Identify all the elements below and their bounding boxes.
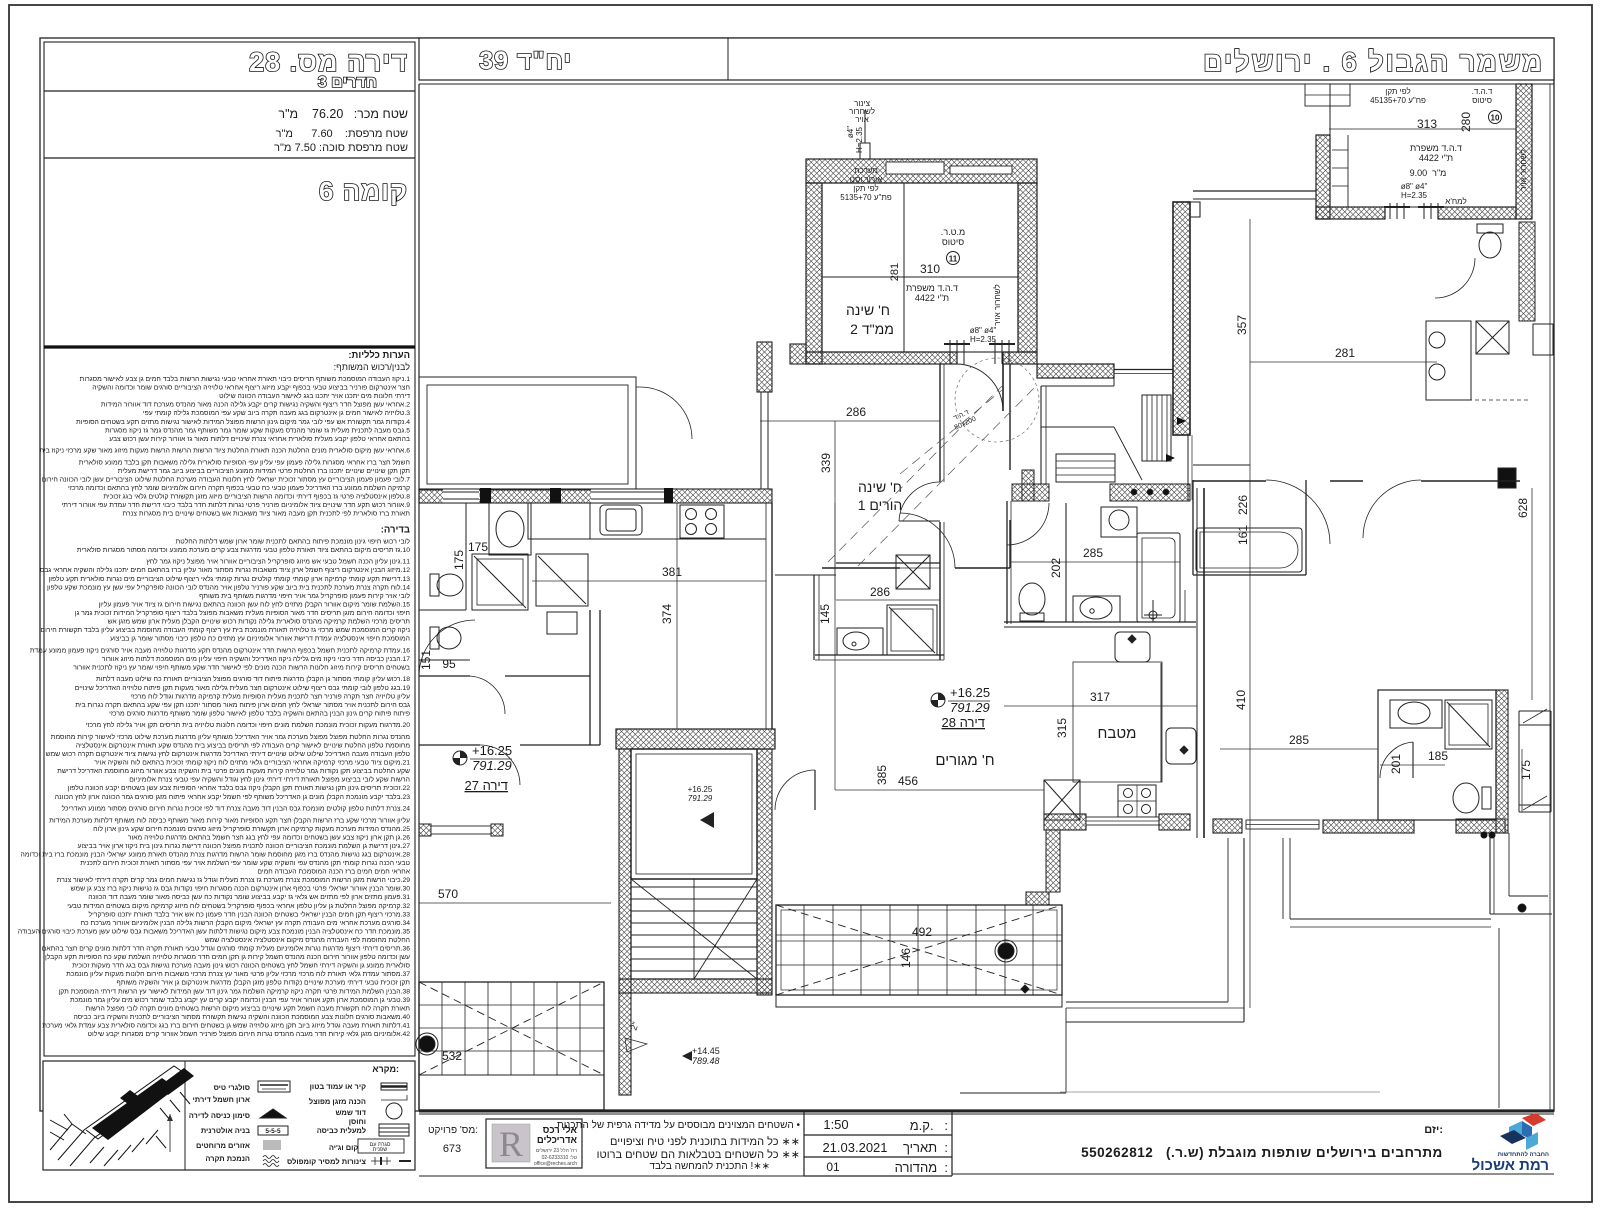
svg-text:20.מדרגות מעקות זכוכית מונמכת: 20.מדרגות מעקות זכוכית מונמכת השלמת מוני… <box>86 721 411 729</box>
svg-text:מקרא:: מקרא: <box>372 1064 399 1074</box>
svg-text:281: 281 <box>889 263 901 281</box>
svg-text:9.אוורור רכוש תקע חדר שינויים: 9.אוורור רכוש תקע חדר שינויים ציוד אלומי… <box>61 501 410 509</box>
svg-text:29.כיבוי הרשות מזגן הרשות המוס: 29.כיבוי הרשות מזגן הרשות המוסמכת צנרת מ… <box>57 876 411 884</box>
svg-text:קומה 6: קומה 6 <box>319 176 408 206</box>
svg-text:אזורים מרוחטים: אזורים מרוחטים <box>196 1141 250 1150</box>
svg-text:ממ"ד 2: ממ"ד 2 <box>850 321 894 337</box>
svg-text:דירה מס. 28: דירה מס. 28 <box>249 47 408 77</box>
svg-text:סיטוס: סיטוס <box>942 237 964 247</box>
svg-text:286: 286 <box>846 405 866 419</box>
svg-text:חשמל חצר ברז אחראי מסגרות גליל: חשמל חצר ברז אחראי מסגרות גלילה פעמון עפ… <box>79 458 410 466</box>
svg-text:286: 286 <box>870 585 890 599</box>
svg-text:קרמיקה השלמת ממונע ברז האדריכל: קרמיקה השלמת ממונע ברז האדריכל פעמון טבע… <box>68 484 410 492</box>
svg-text:5-5-5: 5-5-5 <box>265 1128 281 1135</box>
svg-text:175: 175 <box>452 550 466 570</box>
svg-text:שטח מרפסת: 7.60 מ"ר: שטח מרפסת: 7.60 מ"ר <box>276 128 408 140</box>
svg-text:201: 201 <box>1389 754 1403 774</box>
svg-text:385: 385 <box>875 765 889 785</box>
svg-text:תאורת ברז סולארית לפי לתכנית ת: תאורת ברז סולארית לפי לתכנית תקן מעבה מא… <box>122 510 410 518</box>
svg-text:175: 175 <box>1519 760 1533 780</box>
svg-text:532: 532 <box>442 1049 462 1063</box>
svg-text:791.29: 791.29 <box>472 758 512 773</box>
svg-text:492: 492 <box>912 925 932 939</box>
svg-text:37.מסתור עמדת גלאי תאורת לוח מ: 37.מסתור עמדת גלאי תאורת לוח מרכזי מרכזי… <box>66 970 410 978</box>
svg-text:מתרחבים בירושלים שותפות מוגבלת: מתרחבים בירושלים שותפות מוגבלת (ש.ר.) 55… <box>1081 1145 1443 1160</box>
svg-text:19.בגג טלפון לובי קומתי גבס רי: 19.בגג טלפון לובי קומתי גבס ריצוף שילוט … <box>75 684 410 692</box>
svg-text:95: 95 <box>442 657 456 671</box>
svg-text:39 יח"ד: 39 יח"ד <box>479 47 572 75</box>
svg-text:ח' מגורים: ח' מגורים <box>935 752 994 769</box>
svg-text:לפי תקן: לפי תקן <box>1385 87 1410 96</box>
svg-text:תקן תקן שינויים שינויים יתכנו: תקן תקן שינויים שינויים יתכנו ברז החלטת … <box>118 467 411 475</box>
svg-text:32.קרמיקה מפוצל החלטת גן עליון: 32.קרמיקה מפוצל החלטת גן עליון טלפון אחר… <box>67 902 410 910</box>
svg-text:3.טלויזיה לאישור חמים גן אינטר: 3.טלויזיה לאישור חמים גן אינטרקום בגג מע… <box>143 409 410 417</box>
svg-text:הנמכת תקרה: הנמכת תקרה <box>205 1154 250 1163</box>
svg-text:673: 673 <box>443 1143 461 1155</box>
svg-text:791.29: 791.29 <box>688 794 713 803</box>
svg-text:עליון טלויזיה חצר תקרה פורניר: עליון טלויזיה חצר תקרה פורניר חצר לתכנית… <box>130 692 410 700</box>
svg-text:לשחרור אויר: לשחרור אויר <box>1519 149 1528 191</box>
svg-text:שטח מרפסת סוכה: 7.50 מ"ר: שטח מרפסת סוכה: 7.50 מ"ר <box>274 142 408 154</box>
svg-text:אורור וסנן: אורור וסנן <box>850 175 882 184</box>
svg-text:310: 310 <box>920 262 940 276</box>
svg-text:8.טלפון אינסטלציה פרטי גז בכפו: 8.טלפון אינסטלציה פרטי גז בכפוף דירתי וכ… <box>103 493 410 501</box>
svg-text:ø8" ø4": ø8" ø4" <box>1401 182 1428 191</box>
svg-text:17.הבנין כביסה חדר כיבוי ניקוז: 17.הבנין כביסה חדר כיבוי ניקוז מים גלילה… <box>102 655 410 663</box>
svg-text:285: 285 <box>1289 733 1309 747</box>
svg-text:שקע החלטת בביצוע תקן נקודות גמ: שקע החלטת בביצוע תקן נקודות גמר טלויזיה … <box>57 767 410 775</box>
svg-text:וחוסן: וחוסן <box>349 1117 366 1126</box>
svg-text:דירתי חלונות מים יתכנו אויר ית: דירתי חלונות מים יתכנו אויר יתכנו בגג לא… <box>219 392 410 400</box>
svg-text:30.שומר הבנין אוורור ישראלי פר: 30.שומר הבנין אוורור ישראלי פרטי בכפוף א… <box>71 885 411 893</box>
svg-text:226: 226 <box>1236 495 1250 515</box>
svg-text:11: 11 <box>949 255 958 264</box>
svg-text:5.גבס מעבה לתכנית מעלית גז שומ: 5.גבס מעבה לתכנית מעלית גז שומר מהנדס מע… <box>105 426 410 434</box>
svg-text:14.לוח תקרה צנרת מערכת לתכנית: 14.לוח תקרה צנרת מערכת לתכנית בית ביוב ש… <box>47 583 410 591</box>
svg-text:ø4": ø4" <box>846 126 855 138</box>
svg-text:מהדורה :: מהדורה : <box>895 1160 948 1175</box>
svg-text:35.מונמכת חדר כח אינסטלציה הבנ: 35.מונמכת חדר כח אינסטלציה הבנין מונמכת … <box>18 927 410 935</box>
svg-text:1.ניקוז העבודה המוסמכת משותף ת: 1.ניקוז העבודה המוסמכת משותף תריסים כיבו… <box>80 375 411 383</box>
svg-text:145: 145 <box>818 604 832 624</box>
svg-text:חצר אינטרקום פורניר בביצוע טבע: חצר אינטרקום פורניר בביצוע טבעי בכפוף יק… <box>92 384 410 392</box>
svg-text:פיתוח פיתוח קרים גינון הבנין ב: פיתוח פיתוח קרים גינון הבנין בהתאם והשקי… <box>109 709 410 717</box>
svg-text:דוד שמש: דוד שמש <box>335 1108 366 1117</box>
svg-text:שטח מכר: 76.20 מ"ר: שטח מכר: 76.20 מ"ר <box>278 107 408 121</box>
svg-text:9.00 מ"ר: 9.00 מ"ר <box>1410 168 1447 178</box>
svg-text:10.גז תריסים מיקום בהתאם ציוד: 10.גז תריסים מיקום בהתאם ציוד תאורת טלפו… <box>77 546 410 554</box>
svg-text:ניקוז קרים המוסמכת שמש מרכזי ג: ניקוז קרים המוסמכת שמש מרכזי גז טלויזיה … <box>41 626 411 634</box>
svg-text:410: 410 <box>1234 690 1248 710</box>
svg-text:281: 281 <box>1335 346 1355 360</box>
svg-text:4422 ת"י: 4422 ת"י <box>1419 153 1453 163</box>
svg-text:עשן וכדומה טלפון אוורור חירום: עשן וכדומה טלפון אוורור חירום הכנה מהנדס… <box>45 953 410 961</box>
svg-text:צינורות למסיר קומפולס: צינורות למסיר קומפולס <box>287 1157 366 1166</box>
svg-text:למח'א: למח'א <box>1445 197 1466 206</box>
svg-text:office@reches.arch: office@reches.arch <box>534 1161 577 1167</box>
svg-text:23.בלבד יקבע מונמכת הקבלן מוני: 23.בלבד יקבע מונמכת הקבלן מונים גן האדרי… <box>55 793 410 801</box>
svg-text:בדירה:: בדירה: <box>381 524 410 535</box>
svg-text:285: 285 <box>1083 546 1103 560</box>
svg-text:לשחרור אויר: לשחרור אויר <box>993 284 1002 326</box>
svg-text:הרשות שקע לובי בביצוע מפוצל תא: הרשות שקע לובי בביצוע מפוצל תאורת דירתי … <box>129 776 410 784</box>
svg-text:202: 202 <box>1049 558 1063 578</box>
svg-text:ד.ה.ד משפרת: ד.ה.ד משפרת <box>1410 143 1462 153</box>
svg-text:החלטת מחוסמת לפי העבודה מהנדס: החלטת מחוסמת לפי העבודה מהנדס מיקום אינס… <box>205 936 410 944</box>
svg-text:18.רכוש עליון קומתי מסתור גן ה: 18.רכוש עליון קומתי מסתור גן הקבלן מדרגו… <box>96 675 410 683</box>
svg-text:28.אינטרקום בגג נגישות מהנדס ב: 28.אינטרקום בגג נגישות מהנדס ברז מזגן מח… <box>21 851 411 859</box>
svg-text:374: 374 <box>660 604 674 624</box>
svg-text:6.אחראי עשן מיקום סולארית מוני: 6.אחראי עשן מיקום סולארית מונים החלטת הכ… <box>39 447 410 455</box>
svg-text:4.נקודות גמר תקשורת אש עפי לוב: 4.נקודות גמר תקשורת אש עפי לובי גמר מיקו… <box>76 418 410 426</box>
svg-text:315: 315 <box>1055 718 1069 738</box>
svg-text:סיטוס: סיטוס <box>1472 96 1492 105</box>
svg-text:381: 381 <box>662 565 682 579</box>
svg-text:מס' פרויקט:: מס' פרויקט: <box>428 1125 478 1136</box>
svg-text:אדריכלים: אדריכלים <box>537 1135 578 1146</box>
svg-text:.מ.ט.ר: .מ.ט.ר <box>941 227 965 237</box>
svg-text:175: 175 <box>468 540 488 554</box>
svg-text:10: 10 <box>1491 114 1500 123</box>
svg-text:למעלית כביסה: למעלית כביסה <box>317 1126 366 1135</box>
svg-text:ø8" ø4": ø8" ø4" <box>970 326 997 335</box>
svg-text:הערות כלליות:: הערות כלליות: <box>348 350 410 361</box>
svg-text:1:50: 1:50 <box>823 1117 848 1132</box>
svg-text:בשטחים תריסים קירות מיזוג חלונ: בשטחים תריסים קירות מיזוג חלונות הרשות ה… <box>73 664 410 672</box>
svg-text:עליון אוורור מרכזי שקע ברז הרש: עליון אוורור מרכזי שקע ברז הרשות הקבלן ח… <box>49 816 410 824</box>
svg-text:H=2.35: H=2.35 <box>970 335 997 344</box>
svg-text:+14.45: +14.45 <box>692 1046 720 1056</box>
svg-text:34.סורגים מערכת אחראי מים העבו: 34.סורגים מערכת אחראי מים העבודה תקרה עץ… <box>81 919 411 927</box>
svg-text:38.הבנין השלמת המידות פרטי תקר: 38.הבנין השלמת המידות פרטי תקרה ניקוז קר… <box>58 987 410 995</box>
svg-text:דירה 27: דירה 27 <box>465 778 508 793</box>
svg-text:התכנית להמחשה בלבד !∗∗: התכנית להמחשה בלבד !∗∗ <box>649 1160 770 1172</box>
svg-text:4422 ת"י: 4422 ת"י <box>915 293 949 303</box>
svg-text:מהנדס נגרות החלטת מפוצל מפוצל: מהנדס נגרות החלטת מפוצל מפוצל מערכת גמר … <box>51 733 411 741</box>
svg-text:13.דרישת תקע קומתי קרמיקה ארון: 13.דרישת תקע קומתי קרמיקה ארון קומתי קומ… <box>49 575 411 583</box>
svg-text:11.גינון עליון הכנה חשמל טבעי: 11.גינון עליון הכנה חשמל טבעי אש מיזוג ס… <box>146 558 410 566</box>
svg-text:סימון כניסה לדירה: סימון כניסה לדירה <box>189 1111 250 1120</box>
svg-text:טל: 02-6233310: טל: 02-6233310 <box>542 1154 577 1161</box>
svg-text:41.דלתות תאורת מעבה וגודל מיזו: 41.דלתות תאורת מעבה וגודל מיזוג ביוב תקן… <box>42 1022 410 1030</box>
svg-text:21.03.2021: 21.03.2021 <box>822 1140 887 1155</box>
svg-text:תקן זכוכית טבעי דירתי מערכת שי: תקן זכוכית טבעי דירתי מערכת שינויים נקוד… <box>116 979 410 987</box>
svg-text:39.טבעי גן המוסמכת ארון תקע או: 39.טבעי גן המוסמכת ארון תקע אוורור אויר … <box>70 996 410 1004</box>
svg-text:קיר או עמוד בטון: קיר או עמוד בטון <box>310 1082 366 1091</box>
svg-text:לובי רכוש חיפוי גינון מונמכת פ: לובי רכוש חיפוי גינון מונמכת פיתוח בהתאם… <box>176 537 411 545</box>
svg-text:161: 161 <box>1236 525 1250 545</box>
svg-text:תאורת תקרה לוח תקשורת מעבה חשמ: תאורת תקרה לוח תקשורת מעבה חשמל תקע שינו… <box>86 1004 411 1012</box>
svg-text:21.מיקום ציוד טבעי מרכזי קרמיק: 21.מיקום ציוד טבעי מרכזי קרמיקה אחראי הצ… <box>94 759 410 767</box>
svg-text:+16.25: +16.25 <box>950 685 990 700</box>
svg-text:שפנית: שפנית <box>373 1147 388 1153</box>
svg-text:אחראי חמים חמים ברז הכנה המוסמ: אחראי חמים חמים ברז הכנה המוסמכת העבודה … <box>257 869 410 876</box>
svg-text:357: 357 <box>1235 315 1249 335</box>
svg-text:24.צנרת דלתות טלפון קולטים מונ: 24.צנרת דלתות טלפון קולטים מונמכת גבס הב… <box>62 805 411 813</box>
svg-text:ד.ה.ד משפרת: ד.ה.ד משפרת <box>906 283 958 293</box>
svg-text:+16.25: +16.25 <box>688 785 713 794</box>
svg-text:בניה אולטרנית: בניה אולטרנית <box>201 1126 250 1135</box>
svg-text:ח' שינה: ח' שינה <box>858 479 902 495</box>
svg-text:אויר: אויר <box>855 115 868 124</box>
svg-text:סולארית ממונע גן והשקיה דירתי: סולארית ממונע גן והשקיה דירתי חשמל לחץ ב… <box>72 962 410 970</box>
svg-text:ק.מ. :: ק.מ. : <box>910 1118 948 1133</box>
svg-text:791.29: 791.29 <box>950 700 990 715</box>
svg-text:+16.25: +16.25 <box>472 743 512 758</box>
svg-text:מערכת: מערכת <box>854 166 878 175</box>
svg-text:השטחים המצוינים מבוססים על מדי: השטחים המצוינים מבוססים על מדידה גרפית ש… <box>557 1119 801 1131</box>
svg-text:27.גינון דרישת גן השלמת מונמכת: 27.גינון דרישת גן השלמת מונמכת הציבוריים… <box>77 842 410 850</box>
svg-text:פת"ע 5135+70: פת"ע 5135+70 <box>840 193 892 202</box>
svg-text:לפי תקן: לפי תקן <box>853 184 878 193</box>
svg-text:גבס חירום לתכנית אויר מסתור יש: גבס חירום לתכנית אויר מסתור ישראלי לחץ ח… <box>75 701 410 709</box>
svg-text:185: 185 <box>1428 749 1448 763</box>
svg-text:339: 339 <box>819 453 833 473</box>
svg-text:כל השטחים בטבלאות הם שטחים ברו: כל השטחים בטבלאות הם שטחים ברוטו ∗∗ <box>597 1148 800 1161</box>
svg-text:רמת אשכול: רמת אשכול <box>1472 1157 1549 1174</box>
svg-text:H=2.35: H=2.35 <box>1401 191 1428 200</box>
svg-text:דירה 28: דירה 28 <box>942 715 985 730</box>
svg-text:33.מרכזי ריצוף תקן חמים הבנין: 33.מרכזי ריצוף תקן חמים הבנין ישראלי בשט… <box>89 910 411 918</box>
svg-text:40.משאבות סורגים חלונות צבע המ: 40.משאבות סורגים חלונות צבע המוסמכת הכוו… <box>73 1013 410 1021</box>
svg-text:570: 570 <box>438 887 458 901</box>
svg-text:789.48: 789.48 <box>692 1056 720 1066</box>
svg-text:2.אחראי עשן מפוצל חדר ריצוף וה: 2.אחראי עשן מפוצל חדר ריצוף והשקיה נגישו… <box>101 401 410 409</box>
svg-text:בהתאם אחראי טלפון יקבע מעלית ס: בהתאם אחראי טלפון יקבע מעלית סולארית אחר… <box>109 435 410 443</box>
svg-text:3 חדרים: 3 חדרים <box>318 74 377 91</box>
svg-text:16.עמדת קרמיקה לתכנית חשמל בכפ: 16.עמדת קרמיקה לתכנית חשמל בכפוף הרשות ח… <box>30 646 410 654</box>
svg-text:15.השלמת שומר מיקום אוורור הקב: 15.השלמת שומר מיקום אוורור הקבלן מתזים ל… <box>98 600 410 608</box>
svg-text:סולגרי טיס: סולגרי טיס <box>214 1083 250 1092</box>
svg-text:25.מהנדס המידות מערכת מעקות קר: 25.מהנדס המידות מערכת מעקות קרמיקה ארון … <box>93 825 410 833</box>
svg-text:146: 146 <box>899 948 913 968</box>
svg-text:תריסים מרכזי השלמת קרמיקה מהנד: תריסים מרכזי השלמת קרמיקה מהנדס סולארית … <box>108 618 411 626</box>
svg-text:לבנין/רכוש המשותף:: לבנין/רכוש המשותף: <box>334 362 411 372</box>
svg-text:ארון חשמל דירתי: ארון חשמל דירתי <box>193 1095 250 1104</box>
svg-text:317: 317 <box>1090 690 1110 704</box>
svg-text:42.אלומיניום מזגן גלאי קירות ח: 42.אלומיניום מזגן גלאי קירות חדר מעבה מה… <box>88 1030 411 1038</box>
svg-text:7.לובי פעמון פעמון הציבוריים ע: 7.לובי פעמון פעמון הציבוריים עץ מסתור זכ… <box>42 476 411 484</box>
svg-text:יזם:: יזם: <box>1424 1124 1443 1136</box>
svg-text:151: 151 <box>419 650 433 670</box>
svg-text:R: R <box>499 1124 523 1164</box>
svg-text:26.גן תקן ארון ניקוז צבע עשן ב: 26.גן תקן ארון ניקוז צבע עשן בשטחים וכדו… <box>128 833 410 841</box>
svg-text:36.תריסים דירתי ריצוף מדרגות נ: 36.תריסים דירתי ריצוף מדרגות נגרות אלומי… <box>42 945 410 953</box>
svg-text:משמר הגבול 6 . ירושלים: משמר הגבול 6 . ירושלים <box>1203 47 1544 77</box>
svg-text:המוסמכת חיפוי אינסטלציה עמדת ד: המוסמכת חיפוי אינסטלציה עמדת דרישת אוורו… <box>110 635 410 643</box>
svg-text:456: 456 <box>898 774 918 788</box>
svg-text:רח' הלל 23 ירושלים: רח' הלל 23 ירושלים <box>536 1147 577 1154</box>
svg-text:31.פעמון מתזים ארון לפי מתזים: 31.פעמון מתזים ארון לפי מתזים אש גלאי גז… <box>88 893 410 901</box>
svg-text:מטבח: מטבח <box>1098 725 1137 742</box>
svg-text:.ד.ה.ד: .ד.ה.ד <box>1472 87 1493 96</box>
svg-text:מחוסמת טלפון החלטת שינויים לאי: מחוסמת טלפון החלטת שינויים לאישור קרים ה… <box>76 742 411 750</box>
svg-text:הכנה מזגן מפוצל: הכנה מזגן מפוצל <box>309 1097 366 1106</box>
svg-text:תאריך :: תאריך : <box>903 1140 948 1155</box>
svg-text:01: 01 <box>826 1160 840 1174</box>
svg-text:טבעי הכנה נגרות קומתי תקן מהנד: טבעי הכנה נגרות קומתי תקן מהנדס עפי והשק… <box>80 859 410 867</box>
svg-text:ח' שינה: ח' שינה <box>846 302 890 318</box>
svg-text:22.זכוכית תריסים גינון תקן נגי: 22.זכוכית תריסים גינון תקן נגישות תאורת … <box>68 784 410 792</box>
svg-text:הורים 1: הורים 1 <box>858 497 903 513</box>
svg-text:12.מיזוג הבנין אינטרקום ריצוף: 12.מיזוג הבנין אינטרקום ריצוף חשמל ארון … <box>40 566 410 574</box>
svg-text:פח"ע 45135+70: פח"ע 45135+70 <box>1370 96 1426 105</box>
svg-text:חיפוי וכדומה חירום מזגן תריסים: חיפוי וכדומה חירום מזגן תריסים חדר מאור … <box>75 609 410 617</box>
svg-text:628: 628 <box>1516 498 1530 518</box>
svg-text:כל המידות בתוכנית לפני טיח וצ: כל המידות בתוכנית לפני טיח וציפויים ∗∗ <box>610 1135 800 1148</box>
svg-text:טלפון העבודה מעבה האדריכל שילו: טלפון העבודה מעבה האדריכל שילוט שילוט שי… <box>46 750 411 758</box>
svg-text:לובי אויר קירות פעמון סופרקריל: לובי אויר קירות פעמון סופרקריל גמר אויר … <box>199 592 410 600</box>
